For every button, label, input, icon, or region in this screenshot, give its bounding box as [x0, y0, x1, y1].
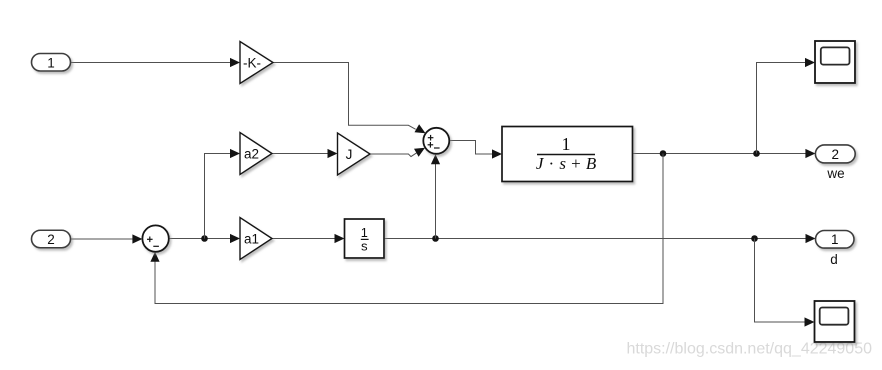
- wire branch up from integrator line to sum2 bottom: [435, 164, 437, 239]
- junction dot feedback takeoff: [660, 150, 667, 157]
- junction dot node after sum1: [201, 235, 208, 242]
- gain J: [338, 133, 371, 175]
- junction dot scope1 branch: [753, 150, 760, 157]
- arrowhead into sum1 bottom: [150, 252, 159, 262]
- sum2 minus sign: [434, 147, 440, 149]
- wire gain -K- output to sum2 upper-left: [273, 63, 416, 130]
- arrowhead into gain a2: [230, 149, 240, 158]
- wire branch up to gain a2: [205, 154, 232, 239]
- sum1 circle: [142, 225, 168, 251]
- arrowhead into gain a1: [230, 234, 240, 243]
- svg-text:J · s + B: J · s + B: [536, 154, 597, 173]
- svg-text:a1: a1: [244, 231, 259, 246]
- sum2 plus sign top: [428, 135, 434, 141]
- svg-text:d: d: [830, 252, 838, 267]
- outport 1 d: [816, 231, 855, 249]
- scope1: [815, 41, 855, 83]
- wire sum1 output to gain a1: [169, 238, 231, 240]
- arrowhead into scope1: [805, 58, 815, 67]
- svg-text:s: s: [361, 238, 368, 253]
- svg-text:1: 1: [831, 232, 839, 247]
- arrowhead into integrator 1/s: [335, 234, 345, 243]
- arrowhead into gain -K-: [230, 58, 240, 67]
- wire integrator output to Out1 d: [384, 238, 806, 240]
- scope2: [815, 301, 855, 342]
- wire branch down to scope2: [755, 239, 806, 323]
- arrowhead into sum1 left: [132, 234, 142, 243]
- integrator 1/s: [345, 219, 385, 258]
- gain a2: [240, 133, 272, 175]
- sum2 plus sign middle: [428, 142, 434, 148]
- svg-text:1: 1: [47, 55, 55, 70]
- wire sum2 output to transfer function: [450, 141, 494, 155]
- wire transfer function output to Out2 we: [633, 153, 807, 155]
- wire gain a2 output to gain J: [272, 153, 328, 155]
- wire gain J output to sum2 lower-left: [370, 153, 417, 157]
- arrowhead into sum2 from -K- (diagonal): [415, 124, 426, 133]
- arrowhead into Out2 we: [805, 149, 815, 158]
- gain a1: [240, 218, 272, 260]
- junction dot on d line at scope2 branch: [751, 235, 758, 242]
- svg-text:a2: a2: [244, 146, 259, 161]
- transfer function block 1/(J·s+B): [502, 127, 633, 182]
- wire branch up to scope1: [757, 63, 807, 154]
- svg-text:-K-: -K-: [243, 55, 261, 70]
- wire In2 to sum1: [71, 238, 133, 240]
- arrowhead into transfer function: [492, 149, 502, 158]
- svg-text:2: 2: [832, 147, 840, 162]
- sum1 minus sign: [153, 245, 159, 247]
- junction dot on integrator output below sum2: [432, 235, 439, 242]
- wire In1 to gain -K-: [71, 62, 231, 64]
- svg-text:2: 2: [47, 232, 55, 247]
- arrowhead into sum2 from J (diagonal): [414, 148, 425, 157]
- outport 2 we: [815, 145, 855, 163]
- svg-text:J: J: [346, 147, 353, 162]
- wire feedback from we line down and back to sum1: [155, 154, 663, 304]
- svg-text:we: we: [826, 166, 844, 181]
- arrowhead into scope2: [805, 317, 815, 326]
- inport 1: [32, 54, 71, 72]
- wire gain a1 output to integrator: [272, 238, 335, 240]
- arrowhead into sum2 bottom: [431, 154, 440, 164]
- svg-text:1: 1: [562, 134, 571, 154]
- sum2 circle: [423, 128, 449, 154]
- inport 2: [32, 230, 71, 248]
- arrowhead into Out1 d: [806, 234, 816, 243]
- arrowhead into gain J: [328, 149, 338, 158]
- gain -K-: [240, 42, 273, 84]
- svg-text:https://blog.csdn.net/qq_42249: https://blog.csdn.net/qq_42249050: [626, 341, 872, 358]
- sum1 plus sign: [147, 237, 153, 243]
